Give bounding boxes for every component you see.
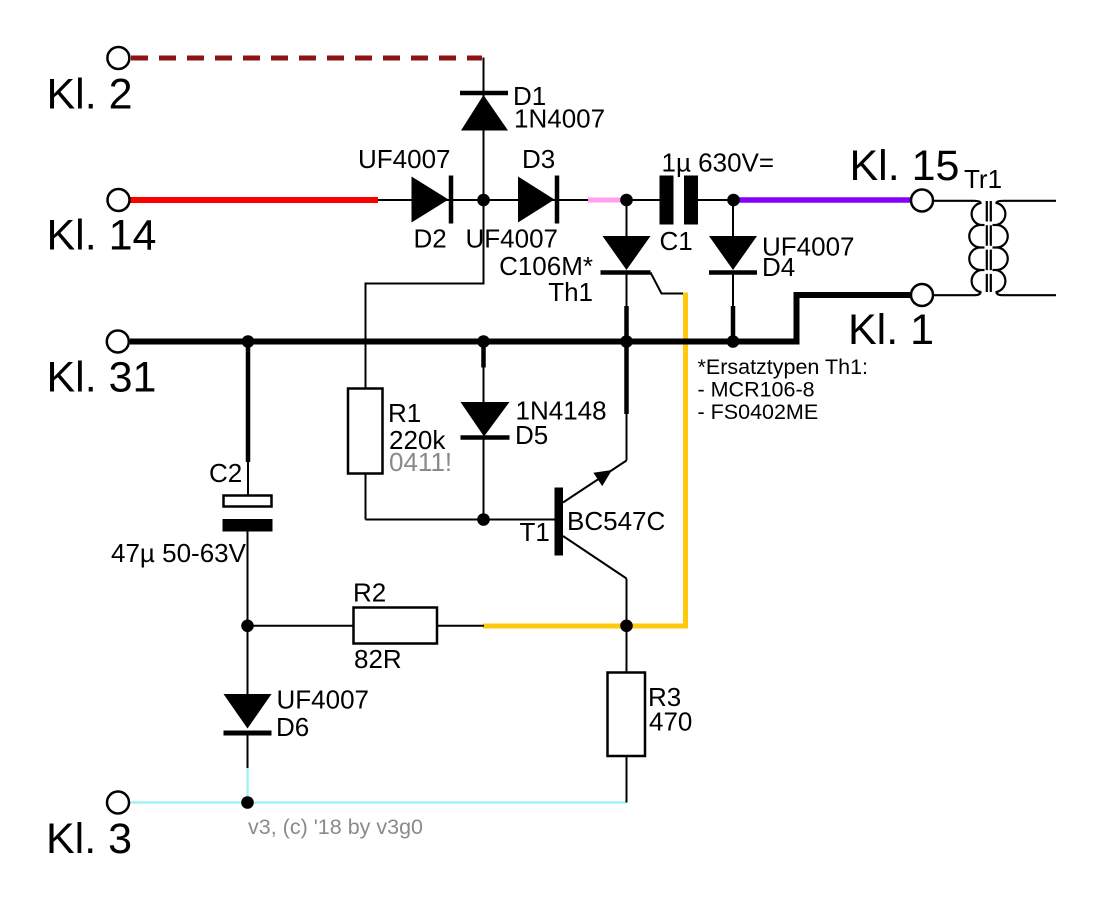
svg-text:D2: D2	[414, 224, 447, 254]
svg-text:UF4007: UF4007	[358, 144, 451, 174]
svg-text:v3, (c) '18 by v3g0: v3, (c) '18 by v3g0	[248, 815, 423, 839]
svg-text:Th1: Th1	[548, 277, 593, 307]
svg-text:C2: C2	[209, 458, 242, 488]
svg-text:Kl. 31: Kl. 31	[47, 354, 157, 402]
svg-text:0411!: 0411!	[389, 447, 452, 477]
svg-text:R1: R1	[388, 398, 421, 428]
svg-text:*Ersatztypen Th1:: *Ersatztypen Th1:	[698, 355, 869, 379]
svg-text:Kl. 1: Kl. 1	[848, 306, 934, 354]
svg-text:470: 470	[649, 707, 692, 737]
svg-text:Tr1: Tr1	[964, 164, 1002, 194]
svg-text:1µ 630V=: 1µ 630V=	[662, 148, 775, 178]
svg-text:Kl. 14: Kl. 14	[47, 212, 157, 260]
svg-text:- FS0402ME: - FS0402ME	[698, 400, 819, 424]
svg-text:D5: D5	[515, 420, 548, 450]
svg-text:D6: D6	[276, 712, 309, 742]
svg-text:- MCR106-8: - MCR106-8	[698, 378, 815, 402]
svg-text:BC547C: BC547C	[567, 506, 665, 536]
svg-text:D3: D3	[522, 144, 555, 174]
svg-text:82R: 82R	[354, 644, 402, 674]
svg-text:Kl. 3: Kl. 3	[46, 815, 132, 863]
svg-text:1N4007: 1N4007	[514, 104, 605, 134]
svg-text:UF4007: UF4007	[466, 224, 559, 254]
svg-text:T1: T1	[520, 517, 550, 547]
svg-text:R2: R2	[353, 578, 386, 608]
svg-text:UF4007: UF4007	[277, 685, 370, 715]
svg-text:C1: C1	[660, 226, 693, 256]
svg-text:Kl. 2: Kl. 2	[47, 71, 133, 119]
svg-text:Kl. 15: Kl. 15	[850, 142, 960, 190]
svg-text:47µ 50-63V: 47µ 50-63V	[111, 538, 247, 568]
svg-text:D4: D4	[762, 252, 795, 282]
